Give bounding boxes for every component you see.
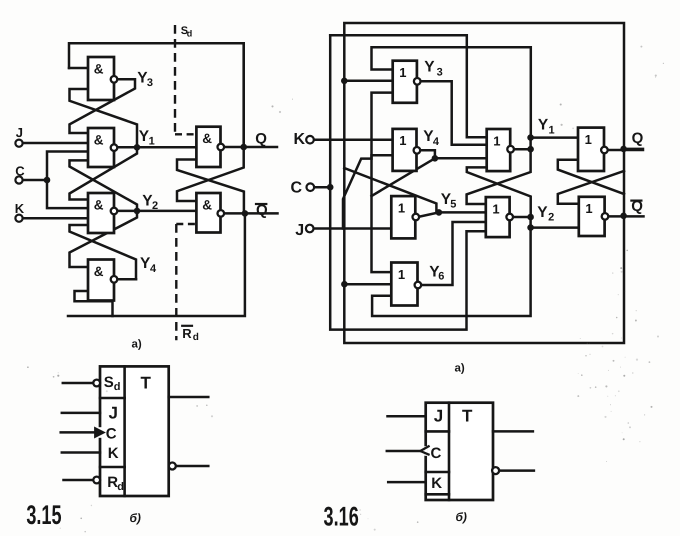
svg-text:&: & bbox=[94, 132, 104, 147]
svg-text:1: 1 bbox=[398, 200, 405, 215]
svg-text:1: 1 bbox=[585, 132, 592, 147]
svg-text:J: J bbox=[434, 407, 443, 426]
svg-text:2: 2 bbox=[152, 200, 158, 212]
svg-text:б): б) bbox=[130, 511, 141, 525]
svg-text:3.15: 3.15 bbox=[26, 500, 61, 530]
svg-text:&: & bbox=[94, 197, 104, 212]
svg-text:1: 1 bbox=[398, 267, 405, 282]
svg-text:3: 3 bbox=[147, 77, 153, 89]
svg-text:d: d bbox=[117, 481, 124, 493]
svg-text:5: 5 bbox=[450, 199, 456, 211]
svg-text:d: d bbox=[114, 381, 121, 393]
svg-text:a): a) bbox=[132, 339, 142, 351]
svg-text:4: 4 bbox=[150, 263, 157, 275]
svg-text:1: 1 bbox=[493, 133, 500, 148]
svg-text:K: K bbox=[431, 475, 442, 492]
svg-text:S: S bbox=[104, 374, 114, 391]
svg-text:T: T bbox=[462, 407, 473, 426]
svg-text:J: J bbox=[16, 125, 23, 140]
svg-text:Y: Y bbox=[537, 204, 548, 221]
svg-text:R: R bbox=[182, 326, 192, 341]
svg-text:4: 4 bbox=[433, 136, 440, 148]
svg-text:J: J bbox=[295, 222, 304, 239]
svg-text:1: 1 bbox=[549, 125, 555, 137]
svg-text:6: 6 bbox=[438, 270, 444, 282]
svg-text:C: C bbox=[106, 426, 117, 443]
svg-text:J: J bbox=[109, 404, 118, 423]
svg-text:1: 1 bbox=[492, 201, 499, 216]
svg-text:Y: Y bbox=[538, 117, 549, 134]
svg-text:C: C bbox=[15, 164, 25, 179]
svg-text:d: d bbox=[187, 29, 193, 39]
svg-text:Q: Q bbox=[632, 130, 644, 147]
svg-text:K: K bbox=[294, 131, 306, 148]
svg-text:2: 2 bbox=[548, 212, 554, 224]
svg-text:1: 1 bbox=[399, 65, 406, 80]
svg-text:1: 1 bbox=[585, 201, 592, 216]
svg-text:Q: Q bbox=[255, 130, 267, 147]
svg-text:C: C bbox=[431, 445, 442, 462]
svg-text:&: & bbox=[94, 61, 104, 76]
svg-text:3.16: 3.16 bbox=[324, 502, 359, 532]
svg-text:a): a) bbox=[455, 363, 465, 375]
svg-text:C: C bbox=[291, 180, 303, 197]
svg-text:&: & bbox=[202, 131, 212, 146]
svg-text:K: K bbox=[15, 201, 25, 216]
svg-text:1: 1 bbox=[399, 133, 406, 148]
svg-text:&: & bbox=[94, 264, 104, 279]
svg-text:K: K bbox=[108, 445, 119, 462]
svg-text:1: 1 bbox=[149, 136, 155, 148]
svg-text:&: & bbox=[202, 197, 212, 212]
svg-text:Y: Y bbox=[424, 59, 435, 76]
svg-text:3: 3 bbox=[437, 66, 443, 78]
svg-text:d: d bbox=[193, 332, 199, 343]
svg-text:б): б) bbox=[456, 510, 467, 524]
svg-text:T: T bbox=[141, 374, 152, 393]
